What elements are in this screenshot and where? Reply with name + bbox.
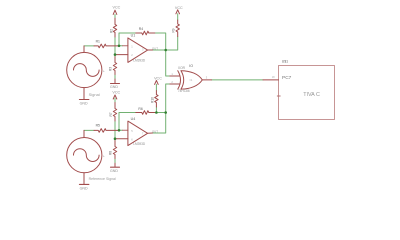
wire signal2 net: R5 to U4 +in: [119, 129, 123, 131]
ground GND below R3: [114, 79, 116, 83]
svg-text:VCC: VCC: [154, 77, 162, 81]
node junction U1 -in / divider: [114, 53, 117, 56]
svg-text:2: 2: [131, 53, 133, 57]
node junction U4 -in / divider: [114, 137, 117, 140]
gate U5 XOR (74HC86): [170, 71, 212, 89]
node junction U1 +in / feedback: [118, 45, 121, 48]
svg-text:VCC: VCC: [113, 6, 121, 10]
resistor R1 (series, signal 1): [94, 44, 119, 48]
resistor R3 (divider bottom, U1): [113, 57, 116, 75]
source V1 (Signal): [67, 46, 102, 99]
ground GND below R8: [114, 163, 116, 167]
svg-text:1: 1: [131, 44, 133, 48]
svg-text:3: 3: [206, 76, 208, 80]
wire U4 output net up to XOR in2: [153, 84, 170, 133]
wire signal1 net: source V1 top to R1: [84, 45, 94, 47]
resistor R2 (divider top, U1): [113, 18, 116, 37]
svg-text:+: +: [103, 70, 105, 74]
svg-text:GND: GND: [80, 102, 88, 106]
node junction U4 +in / feedback: [118, 129, 121, 132]
resistor R10 (pull-up, U4 output): [155, 91, 158, 107]
node junction pull-up R10 / feedback line: [155, 111, 158, 114]
svg-text:R8: R8: [108, 151, 112, 155]
svg-text:GND: GND: [110, 85, 118, 89]
svg-text:R4: R4: [139, 27, 143, 31]
wire U4 divider column green segments: [114, 98, 116, 163]
wire feedback net R4 (U1 +in to output): [119, 33, 166, 50]
wire feedback net R6 (U4 +in to output): [119, 113, 166, 131]
op-amp U1 (LM393D comparator, channel 1): [115, 38, 153, 63]
svg-text:R2: R2: [109, 29, 113, 33]
svg-text:5: 5: [131, 129, 133, 133]
wire XOR output net to PC7: [212, 79, 264, 81]
wire U1 divider column green segments: [114, 14, 116, 79]
svg-text:LM393D: LM393D: [133, 142, 146, 146]
svg-text:R10: R10: [150, 97, 154, 103]
svg-text:R7: R7: [109, 112, 113, 116]
svg-text:PC7: PC7: [282, 75, 292, 81]
svg-text:VCC: VCC: [175, 6, 183, 10]
svg-text:IO: IO: [189, 64, 193, 68]
resistor R7 (divider top, U4): [113, 103, 116, 122]
resistor R9 (pull-up, U1 output): [176, 20, 179, 37]
wire signal1 net: R1 to U1 +in: [119, 45, 123, 47]
svg-text:LM393D: LM393D: [133, 58, 146, 62]
node junction U1 output / feedback / XOR in1: [164, 49, 167, 52]
node junction U4 output vertical / feedback: [164, 111, 167, 114]
svg-text:2: 2: [171, 80, 173, 84]
svg-text:R6: R6: [138, 107, 142, 111]
ground GND below source V2: [79, 183, 89, 185]
svg-text:=1: =1: [189, 78, 193, 82]
svg-text:R1: R1: [96, 40, 100, 44]
svg-text:TIVA C: TIVA C: [303, 92, 320, 98]
svg-text:R5: R5: [96, 124, 100, 128]
op-amp U4 (LM393D comparator, channel 2): [115, 121, 153, 146]
svg-text:GND: GND: [110, 169, 118, 173]
svg-text:U4: U4: [131, 117, 136, 121]
resistor R4 (feedback, U1): [136, 31, 155, 35]
source V2 (Reference Signal): [67, 130, 102, 184]
svg-text:18: 18: [272, 75, 275, 79]
svg-text:74HC86: 74HC86: [178, 89, 190, 93]
svg-text:R3: R3: [108, 67, 112, 71]
svg-text:VCC: VCC: [112, 90, 120, 94]
wire VCC stub of pull-up R9: [177, 14, 179, 20]
svg-text:+: +: [103, 155, 105, 159]
svg-text:R9: R9: [172, 28, 176, 32]
resistor R8 (divider bottom, U4): [113, 141, 116, 159]
resistor R5 (series, signal 2): [94, 129, 119, 133]
svg-text:U1: U1: [131, 34, 136, 38]
wire U1 output down to XOR in1: [166, 50, 170, 76]
mcu box U$1 (TIVA C): [279, 66, 335, 120]
svg-text:7: 7: [142, 131, 144, 135]
svg-text:Reference Signal: Reference Signal: [89, 177, 116, 181]
pin stub PC7 into box: [263, 79, 279, 81]
wire signal2 net: source V2 top to R5: [84, 129, 94, 131]
svg-text:6: 6: [131, 137, 133, 141]
svg-text:1: 1: [171, 72, 173, 76]
pin tick on box left edge: [277, 95, 280, 97]
resistor R6 (feedback, U4): [136, 111, 155, 115]
wire U1 output net to pull-up R9 corner: [153, 37, 178, 51]
svg-text:GND: GND: [80, 186, 88, 190]
svg-text:XOR: XOR: [178, 66, 186, 70]
svg-text:3: 3: [142, 48, 144, 52]
svg-text:OUT: OUT: [152, 129, 158, 133]
wire pull-up R10 to junction: [155, 84, 157, 112]
ground GND below source V1: [79, 99, 89, 101]
svg-text:Signal: Signal: [89, 92, 100, 97]
svg-text:OUT: OUT: [152, 46, 158, 50]
svg-text:U$1: U$1: [282, 59, 288, 63]
